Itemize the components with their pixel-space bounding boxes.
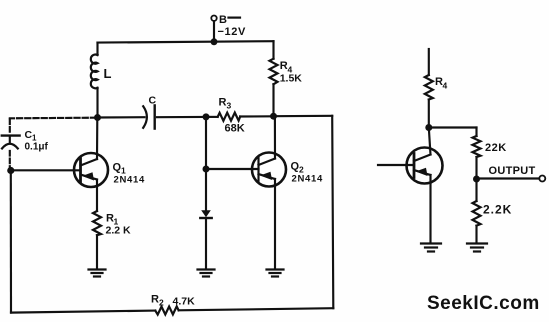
- wire: dashed link from junction to C1 (horizontal): [10, 117, 96, 120]
- svg-text:0.1μf: 0.1μf: [25, 142, 49, 153]
- resistor 22K (vertical): [473, 136, 507, 179]
- transistor Q3 (PNP, unlabeled): [378, 128, 443, 243]
- node: R4 / Q2 collector junction: [270, 113, 277, 120]
- terminal B- (open circle): [211, 16, 216, 21]
- resistor R4 (right stage, vertical): [425, 49, 448, 128]
- svg-text:2N414: 2N414: [114, 175, 146, 186]
- svg-text:3: 3: [227, 101, 232, 111]
- wire: 22K branch down: [475, 128, 477, 137]
- terminal: OUTPUT (open circle): [539, 176, 545, 182]
- wire: top supply rail: [98, 41, 274, 42]
- svg-text:2.2 K: 2.2 K: [106, 225, 132, 237]
- wire: node A to coupling capacitor: [98, 116, 145, 118]
- resistor R4 1.5K (vertical): [270, 41, 303, 116]
- svg-text:2: 2: [159, 298, 164, 308]
- wire: bottom rail right segment: [179, 308, 334, 310]
- svg-text:R: R: [219, 97, 227, 109]
- resistor R2 4.7K (horizontal, bottom): [151, 294, 195, 315]
- wire: node B down to Q2 base node: [205, 117, 207, 169]
- svg-text:R: R: [151, 294, 159, 306]
- wire: B- stub: [213, 21, 215, 42]
- ground: below Q3 emitter: [421, 244, 441, 252]
- wire: left feedback rail (down): [10, 171, 12, 313]
- svg-text:2.2K: 2.2K: [483, 203, 512, 217]
- diode CR1: [200, 169, 211, 269]
- ground: below R1: [89, 270, 106, 277]
- svg-text:4: 4: [443, 81, 448, 91]
- svg-text:1.5K: 1.5K: [280, 73, 303, 85]
- ground: below 2.2K: [467, 244, 487, 252]
- wire: dashed link vertical down to C1: [9, 120, 11, 135]
- svg-text:4.7K: 4.7K: [173, 296, 196, 308]
- svg-text:2N414: 2N414: [292, 174, 324, 185]
- transistor Q1 2N414 (PNP): [74, 118, 145, 212]
- node: R4 / 22K / Q3 collector junction: [425, 124, 432, 131]
- capacitor C1: [2, 129, 49, 168]
- transistor Q2 2N414 (PNP): [252, 116, 323, 268]
- svg-text:R: R: [280, 60, 288, 72]
- svg-text:−12V: −12V: [218, 26, 246, 38]
- ground: below diode: [198, 270, 215, 277]
- wire: right feedback rail (down): [332, 116, 333, 308]
- wire: capacitor C to node B: [157, 116, 204, 118]
- wire: to output terminal: [477, 177, 540, 179]
- svg-text:B: B: [219, 14, 227, 26]
- svg-text:SeekIC.com: SeekIC.com: [427, 293, 540, 314]
- svg-text:C: C: [149, 94, 157, 106]
- node: C / R3 / Q2-base-branch junction: [203, 113, 210, 120]
- svg-text:22K: 22K: [485, 142, 507, 154]
- wire: bottom rail left segment: [11, 311, 155, 313]
- node: L / C / Q1 collector junction: [94, 114, 101, 121]
- wire: junction to Q1 base: [11, 169, 81, 171]
- svg-text:OUTPUT: OUTPUT: [489, 165, 536, 177]
- svg-text:L: L: [104, 66, 112, 81]
- ground: below Q2 emitter: [267, 270, 284, 277]
- wire: node to right feedback rail: [274, 115, 333, 118]
- node: 22K / 2.2K / OUTPUT junction: [473, 176, 480, 183]
- inductor L: [91, 43, 112, 117]
- node: B- junction dot: [211, 38, 218, 45]
- resistor R3 68K (horizontal): [206, 97, 271, 135]
- resistor R1 2.2K (vertical): [93, 211, 131, 269]
- resistor 2.2K (vertical): [473, 179, 513, 243]
- capacitor C (coupling): [143, 94, 156, 128]
- wire: junction to 22K branch: [429, 126, 477, 128]
- node: C1 / Q1 base / feedback junction: [7, 167, 14, 174]
- wire: junction to Q2 base: [206, 168, 259, 170]
- svg-text:68K: 68K: [225, 123, 245, 135]
- node: Q2 base / diode junction: [203, 166, 210, 173]
